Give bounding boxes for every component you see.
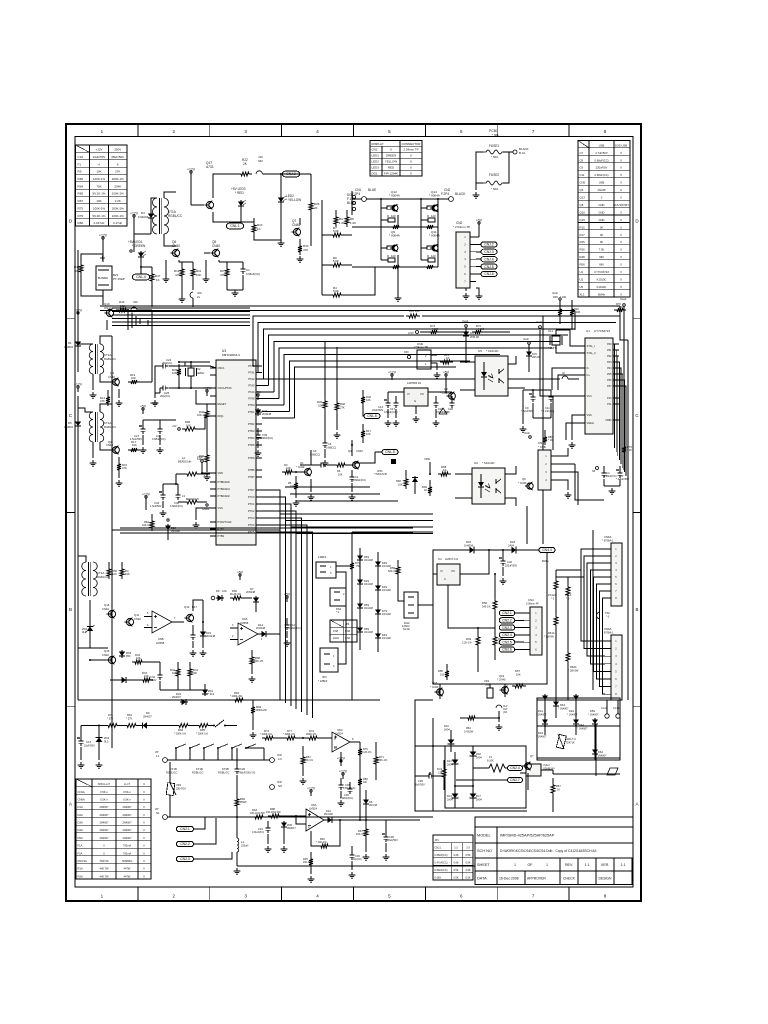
svg-text:10K-1%/0.5W: 10K-1%/0.5W [250, 812, 265, 815]
capacitor C_q13 [192, 625, 194, 632]
svg-text:* K1010C: * K1010C [486, 349, 499, 353]
svg-text:CN2.4: CN2.4 [502, 633, 512, 637]
svg-text:Q19: Q19 [499, 674, 505, 678]
resistor R61b 27K [124, 724, 139, 728]
wire right drop1 [620, 306, 628, 340]
svg-text:1.6K: 1.6K [339, 221, 345, 225]
svg-text:X: X [143, 821, 145, 825]
svg-text:L1: L1 [156, 754, 160, 758]
capacitor C33 1.5uF/50V [162, 488, 164, 492]
svg-text:0.68uF(CC): 0.68uF(CC) [260, 437, 273, 440]
svg-text:CN2.1: CN2.1 [180, 827, 190, 831]
ground r67c [365, 839, 367, 852]
capacitor C35 0.68 [257, 428, 259, 432]
wire matrix bottom [397, 267, 399, 295]
svg-text:5.08mm 4P: 5.08mm 4P [526, 603, 539, 606]
svg-text:1K: 1K [557, 789, 560, 792]
svg-text:2A04: 2A04 [447, 799, 453, 802]
svg-text:A733: A733 [206, 165, 214, 169]
svg-text:1.5uF/50V: 1.5uF/50V [150, 505, 162, 508]
wire [178, 260, 180, 262]
svg-text:X: X [620, 225, 622, 229]
wire rail top long2 [100, 310, 575, 312]
svg-text:BAT+: BAT+ [542, 559, 549, 563]
inner frame [75, 137, 633, 888]
wire sw to out [246, 747, 264, 749]
svg-text:Q8: Q8 [522, 477, 526, 481]
svg-text:* 0: * 0 [336, 610, 340, 614]
wire kt group [189, 748, 191, 760]
svg-text:1M: 1M [172, 671, 176, 675]
svg-text:P10: P10 [607, 397, 612, 400]
svg-text:* 10K-1%: * 10K-1% [316, 841, 327, 844]
svg-text:CN2.2: CN2.2 [502, 619, 512, 623]
svg-text:F60: F60 [404, 350, 409, 354]
capacitor C17 0.68uF [395, 396, 397, 400]
svg-text:PTD7: PTD7 [248, 488, 255, 492]
power +12V [190, 173, 192, 177]
wire buzzer loop [81, 254, 103, 258]
wire chg bottom [439, 684, 441, 699]
svg-text:440.7W: 440.7W [100, 867, 109, 871]
svg-text:2N4007: 2N4007 [122, 821, 132, 825]
svg-text:* 1W/5W: * 1W/5W [544, 636, 554, 639]
svg-text:20p(CC): 20p(CC) [160, 394, 170, 398]
svg-text:D18: D18 [476, 752, 481, 756]
svg-text:R62A: R62A [570, 665, 577, 669]
wire bus MCU to right [253, 316, 620, 366]
svg-text:200K: 200K [191, 671, 197, 675]
resistor R43 10K h [132, 660, 145, 664]
svg-text:* CN40: * CN40 [518, 481, 527, 485]
wire diodes botmid [454, 752, 456, 758]
svg-text:* 1N4007: * 1N4007 [536, 736, 547, 739]
wire opto2 left [455, 473, 472, 475]
svg-text:0.68: 0.68 [466, 869, 471, 872]
resistor PC12A 0 [555, 570, 557, 578]
svg-text:MOV1A: MOV1A [78, 859, 88, 863]
svg-text:CN40: CN40 [172, 244, 180, 248]
svg-text:VO: VO [451, 569, 455, 573]
svg-text:10K: 10K [290, 485, 295, 488]
svg-text:0.68(CC): 0.68(CC) [310, 454, 320, 457]
svg-text:* 1N4007: * 1N4007 [596, 755, 607, 758]
svg-text:PC12A: PC12A [548, 593, 556, 597]
wire bus left horizontals [112, 307, 250, 309]
svg-text:LLnT: LLnT [124, 782, 130, 786]
switch contact meter [215, 720, 224, 727]
svg-text:* CN40: * CN40 [440, 391, 449, 395]
resistor R4 5.6K [330, 293, 344, 297]
svg-text:0.5K-x: 0.5K-x [123, 797, 131, 801]
svg-text:950: 950 [126, 654, 131, 658]
svg-text:100K-1%: 100K-1% [93, 177, 105, 181]
connector tag CNL.1 [227, 223, 244, 229]
svg-text:CN40: CN40 [356, 449, 363, 453]
resistor R58 100 [446, 664, 448, 668]
svg-text:BEAD10uH: BEAD10uH [178, 460, 191, 464]
wire [344, 264, 352, 266]
resistor R5 10K [295, 476, 297, 480]
resistor R57c 1K [552, 778, 554, 782]
ground meter1 [267, 834, 269, 844]
ground r36 [206, 465, 208, 472]
svg-text:CNJ.5: CNJ.5 [484, 265, 493, 269]
svg-text:* 0: * 0 [551, 597, 555, 601]
svg-text:X: X [620, 277, 622, 281]
terminal CL1A [605, 714, 609, 718]
ground C4 C7 [603, 479, 605, 486]
resistor R63 10K 0.5W [252, 815, 266, 819]
svg-text:27K: 27K [340, 406, 345, 410]
wire [359, 758, 361, 772]
svg-text:X: X [410, 154, 412, 158]
capacitor C14 0.68uF [286, 618, 288, 622]
svg-text:R2A: R2A [78, 874, 83, 878]
transistor Q11 b [126, 618, 133, 625]
resistor R40b 10K [362, 390, 364, 394]
svg-text:KT1B: KT1B [170, 767, 177, 771]
svg-text:X: X [143, 828, 145, 832]
resistor R22 2K [238, 172, 252, 176]
svg-text:RGBL/CC: RGBL/CC [104, 425, 116, 429]
svg-text:447W: 447W [124, 867, 131, 871]
svg-text:2N4148: 2N4148 [171, 530, 180, 533]
wire bridge mid [537, 725, 620, 727]
svg-text:CN40: CN40 [102, 653, 109, 657]
svg-text:10K: 10K [363, 781, 368, 784]
svg-text:0K: 0K [600, 225, 604, 229]
svg-text:D17: D17 [476, 794, 481, 798]
svg-text:75K: 75K [96, 184, 101, 188]
svg-text:10K: 10K [112, 572, 117, 576]
svg-text:Q11: Q11 [134, 613, 140, 617]
inductor L3 BEAD [184, 500, 200, 504]
svg-text:LM358: LM358 [240, 621, 249, 625]
resistor R56 240 [494, 574, 496, 598]
svg-text:Vusb: Vusb [462, 319, 469, 323]
resistor R71b 27K [105, 724, 120, 728]
svg-text:PTD4: PTD4 [248, 436, 255, 440]
svg-text:2N5.08: 2N5.08 [532, 356, 541, 359]
connector CN6A 2 [611, 635, 622, 700]
svg-text:0.68uF(CC): 0.68uF(CC) [246, 272, 260, 276]
svg-text:22uF/50V: 22uF/50V [387, 839, 398, 842]
svg-text:VI: VI [440, 569, 443, 573]
resistor R23 1K [440, 360, 453, 364]
svg-text:0.68: 0.68 [454, 862, 459, 865]
svg-text:0.68uF(FC): 0.68uF(FC) [288, 627, 301, 630]
svg-text:1K: 1K [443, 468, 447, 472]
svg-text:X: X [143, 844, 145, 848]
svg-text:CNJ.6: CNJ.6 [484, 272, 493, 276]
svg-text:D5: D5 [68, 421, 72, 425]
resistor R33 10K [140, 678, 153, 682]
connector tag CNL.4 [133, 274, 150, 280]
svg-text:A: A [444, 577, 446, 581]
wire usb area h [352, 531, 433, 533]
svg-text:6MHz: 6MHz [598, 292, 606, 296]
svg-text:16-Dec-2008: 16-Dec-2008 [499, 876, 519, 880]
optocoupler U2 K1010C [472, 468, 505, 504]
svg-text:1K: 1K [257, 227, 261, 231]
diode D13 2A04 [454, 792, 456, 800]
resistor R60b 56.2K [230, 596, 244, 600]
wire bridge bottom [536, 726, 538, 758]
wire [344, 234, 352, 236]
svg-text:+12V: +12V [187, 168, 196, 172]
svg-text:LM7805 #1: LM7805 #1 [407, 381, 422, 385]
svg-text:* K1010C: * K1010C [482, 461, 495, 465]
wire left rail main [77, 322, 79, 372]
svg-text:U5: U5 [580, 285, 584, 289]
svg-text:27K: 27K [115, 170, 120, 174]
wire bus MCU to bottom [262, 490, 280, 700]
resistor R62A 180 5W [566, 650, 570, 664]
resistor R74m 120 [424, 265, 436, 269]
connector CN4 [530, 607, 542, 655]
svg-text:R1A: R1A [78, 867, 83, 871]
diode D14 2N4148 [260, 633, 268, 635]
wire right edge vertical [627, 340, 629, 700]
crystal XL1 6MHz [552, 336, 560, 345]
svg-text:KT1A: KT1A [104, 421, 111, 425]
svg-text:* 180-5W: * 180-5W [568, 670, 579, 673]
svg-text:R: R [427, 214, 429, 218]
transistor Q18 [437, 689, 444, 696]
svg-text:X: X [143, 851, 145, 855]
resistor R42 1M [177, 662, 179, 666]
svg-text:10uF/50V: 10uF/50V [84, 745, 95, 748]
svg-text:VREG: VREG [587, 421, 594, 425]
svg-text:2A04: 2A04 [447, 764, 453, 767]
svg-text:X: X [620, 263, 622, 267]
power +12V KT1A [133, 217, 135, 221]
svg-text:Vusb: Vusb [524, 431, 530, 435]
power +5V CN2 [478, 224, 480, 228]
svg-text:Q2: Q2 [444, 387, 448, 391]
svg-text:LM324: LM324 [309, 807, 317, 811]
svg-text:10u(CC): 10u(CC) [353, 858, 362, 861]
svg-text:R25: R25 [580, 240, 586, 244]
svg-text:PTA2: PTA2 [248, 377, 255, 381]
power +12V u6d [310, 792, 312, 796]
svg-text:B: B [635, 607, 638, 612]
svg-text:VDD: VDD [218, 471, 224, 475]
svg-text:* 200K-2W: * 200K-2W [230, 695, 243, 698]
svg-text:U6A: U6A [242, 617, 248, 621]
connector tag CNJ.2 [481, 242, 497, 247]
svg-text:X: X [620, 151, 622, 155]
svg-text:CN40: CN40 [292, 223, 300, 227]
wire right long v1 [595, 724, 597, 776]
capacitor C19 0.01uF [267, 821, 269, 825]
resistor R66 pullup [544, 430, 546, 434]
transistor Q2 [449, 393, 456, 400]
resistor R75b 56.2K [359, 742, 361, 746]
svg-text:2A04: 2A04 [476, 799, 482, 802]
wire chg top [433, 549, 468, 551]
power +12V reg [391, 376, 393, 380]
resistor R67c 10K [365, 820, 367, 826]
svg-text:L1: L1 [241, 840, 245, 844]
svg-text:XTAL_I: XTAL_I [587, 344, 596, 348]
wire vreg triangle [439, 408, 447, 414]
svg-text:Q?: Q? [530, 754, 534, 758]
svg-text:100K-1%: 100K-1% [112, 214, 124, 218]
svg-text:1K: 1K [424, 488, 428, 492]
svg-text:0.5K: 0.5K [465, 862, 470, 865]
wire dg2 [398, 577, 404, 601]
svg-text:10K: 10K [286, 466, 291, 470]
svg-text:1: 1 [514, 863, 516, 867]
svg-text:R48: R48 [580, 255, 586, 259]
diode D6S 1N4148 [359, 554, 361, 562]
svg-text:CNJ.4: CNJ.4 [484, 257, 493, 261]
svg-text:56.2K-1%: 56.2K-1% [93, 192, 106, 196]
resistor R67b 10K [302, 750, 304, 754]
power +12V q4 [77, 388, 79, 392]
svg-text:2A04: 2A04 [508, 544, 515, 548]
diode D4S 1N4148 [377, 632, 379, 640]
svg-text:5.6K: 5.6K [333, 259, 339, 263]
svg-text:R96: R96 [185, 420, 191, 424]
svg-text:OSC1: OSC1 [218, 366, 226, 370]
ground q9 [118, 473, 120, 478]
ground R48 [336, 413, 338, 430]
wire crystal top [168, 365, 210, 367]
svg-text:0.68(CC): 0.68(CC) [326, 447, 336, 450]
LED LED3 [240, 200, 242, 208]
svg-text:* 1N4007: * 1N4007 [558, 708, 569, 711]
svg-text:LED2: LED2 [372, 160, 380, 164]
svg-text:Q3: Q3 [348, 449, 352, 453]
wire [78, 343, 93, 345]
svg-text:CY7C63743: CY7C63743 [594, 270, 609, 274]
svg-text:B: B [69, 607, 72, 612]
zener ZD2 [89, 625, 91, 633]
svg-text:C28: C28 [418, 779, 423, 783]
svg-text:C7: C7 [580, 151, 584, 155]
wire u6d in [282, 815, 306, 817]
svg-text:DG1: DG1 [372, 171, 378, 175]
svg-text:2N4007: 2N4007 [99, 805, 109, 809]
connector tag CNJ.3 [481, 249, 497, 254]
svg-text:47K: 47K [100, 399, 105, 403]
svg-text:Q15: Q15 [104, 649, 110, 653]
wire 12bf2 [336, 565, 352, 567]
svg-text:0.68uF(CC): 0.68uF(CC) [594, 158, 608, 162]
svg-text:PTC1: PTC1 [248, 502, 255, 506]
diode D27 zener [257, 408, 259, 416]
svg-text:CN2.3: CN2.3 [502, 626, 512, 630]
svg-text:* CN40: * CN40 [296, 465, 305, 469]
resistor R59 62K [397, 560, 399, 564]
capacitor C6c series [318, 464, 321, 466]
svg-text:D12: D12 [447, 759, 452, 763]
svg-text:P61A: P61A [565, 593, 572, 597]
svg-text:R5: R5 [78, 170, 82, 174]
wire fuse loop [476, 152, 483, 183]
svg-text:2.54mm TP: 2.54mm TP [414, 345, 428, 349]
ground r67 [302, 767, 304, 776]
svg-text:* 50A: * 50A [491, 155, 498, 159]
svg-text:X: X [410, 160, 412, 164]
ground Q3 [351, 483, 353, 492]
wire meter chain [81, 725, 105, 727]
ground zd4 [98, 744, 100, 760]
svg-text:2.2K: 2.2K [115, 199, 121, 203]
svg-text:7D680Ks: 7D680Ks [122, 859, 133, 863]
wire right rail v [526, 506, 528, 544]
svg-text:CN40: CN40 [104, 306, 112, 310]
buzzer BZ1 [96, 266, 112, 290]
wire xtal [555, 330, 557, 336]
svg-text:CNJ.2: CNJ.2 [484, 243, 493, 247]
jumper pad JP01 [391, 459, 396, 464]
svg-text:0.5K-x: 0.5K-x [100, 797, 108, 801]
svg-text:1N4148: 1N4148 [364, 607, 373, 610]
resistor R84 200K [176, 724, 191, 728]
power +12V mcu area [145, 498, 147, 502]
ground fuse [475, 183, 477, 190]
svg-text:CN2: CN2 [372, 148, 378, 152]
svg-text:0.68: 0.68 [333, 630, 338, 633]
diode D22 2N4007 [180, 701, 188, 703]
resistor R79 750 [351, 556, 353, 560]
svg-text:250V: 250V [114, 148, 121, 152]
svg-text:0.68uF(CC): 0.68uF(CC) [152, 437, 166, 441]
transformer KT1A [153, 198, 158, 234]
svg-text:D6A: D6A [598, 750, 603, 754]
svg-text:* PZF12V46: * PZF12V46 [374, 473, 388, 476]
resistor R68b 200K [251, 650, 253, 654]
wire opto out2 [508, 387, 525, 389]
svg-text:GND: GND [598, 210, 604, 214]
transistor Q17 [206, 201, 213, 208]
svg-text:A: A [69, 801, 72, 806]
svg-text:R61: R61 [127, 713, 132, 717]
resistor R36 51K [206, 448, 208, 452]
svg-text:68uF/50V: 68uF/50V [111, 155, 124, 159]
resistor R68 1K [438, 472, 451, 476]
svg-text:2N4007: 2N4007 [99, 836, 109, 840]
wire irq [198, 416, 210, 429]
transistor Q1P CN40 [525, 763, 532, 770]
svg-text:K1010C: K1010C [597, 285, 607, 289]
connector tag CN2.4 [499, 632, 515, 637]
ground C6 [324, 449, 326, 458]
ground c38 [385, 843, 387, 852]
svg-text:1-2: 1-2 [454, 847, 458, 850]
svg-text:PTB3: PTB3 [218, 534, 225, 538]
power +5V u6a [286, 598, 288, 602]
zener ZD3 950 [121, 650, 123, 658]
resistor R72 100 [472, 330, 484, 334]
svg-text:YELLOW: YELLOW [385, 160, 397, 164]
svg-text:R: R [387, 254, 389, 258]
svg-text:KT2B: KT2B [222, 767, 229, 771]
wire [102, 296, 104, 305]
wire [140, 381, 152, 383]
resistor R72b 200K [306, 736, 320, 740]
capacitor C39 10u [351, 852, 353, 855]
svg-text:Vusb: Vusb [523, 337, 529, 341]
ground LED2 [280, 240, 282, 243]
svg-text:R20: R20 [317, 400, 322, 404]
svg-text:1N4148: 1N4148 [364, 583, 373, 586]
svg-text:+12V: +12V [142, 493, 151, 497]
